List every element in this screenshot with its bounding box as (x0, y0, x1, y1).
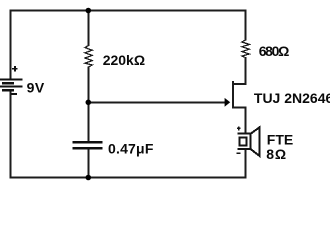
speaker + mark (237, 127, 241, 131)
speaker bottom plate (238, 148, 254, 150)
battery BT1 9V (0, 66, 22, 94)
svg-text:0.47μF: 0.47μF (108, 141, 154, 157)
resistor R2 680Ω (242, 40, 249, 58)
svg-text:TUJ 2N2646: TUJ 2N2646 (254, 90, 330, 106)
wire capacitor bottom lead (87, 149, 89, 179)
wire 220k top lead (87, 11, 89, 47)
wire top rail (11, 10, 246, 12)
wire 220k bottom lead to node A (87, 67, 89, 104)
speaker magnet box (239, 137, 246, 145)
svg-text:9V: 9V (27, 80, 45, 96)
wire node A down to capacitor (87, 101, 89, 142)
svg-text:220kΩ: 220kΩ (103, 52, 145, 68)
junction bottom rail / capacitor (86, 175, 92, 181)
UJT B2 lead (233, 83, 246, 85)
UJT emitter arrow (225, 98, 231, 107)
battery + mark (12, 66, 18, 72)
battery - mark (11, 93, 17, 95)
junction node A (86, 100, 92, 106)
wire B1 lead down to speaker (245, 106, 247, 133)
resistor R1 220kΩ (85, 46, 92, 68)
wire 680 bottom lead to B2 (245, 57, 247, 85)
wire emitter from node A to UJT (88, 101, 225, 103)
speaker - mark (237, 152, 241, 154)
UJT B1 lead (233, 106, 246, 108)
speaker cone (250, 127, 259, 156)
svg-text:8Ω: 8Ω (266, 146, 287, 162)
junction top rail / 220k (86, 8, 92, 14)
speaker top plate (238, 133, 254, 135)
svg-text:680Ω: 680Ω (259, 43, 289, 59)
wire bottom rail (10, 177, 247, 179)
wire 680 top lead (245, 10, 247, 41)
wire left rail (battery - lead down to bottom rail) (10, 91, 12, 179)
wire speaker bottom lead to bottom rail (245, 150, 247, 179)
speaker LS1 (237, 127, 260, 157)
capacitor C1 0.47µF (72, 142, 102, 148)
transistor Q1 UJT 2N2646 (233, 81, 246, 109)
wire left rail (battery + lead) (10, 10, 12, 80)
UJT base bar (232, 81, 234, 109)
